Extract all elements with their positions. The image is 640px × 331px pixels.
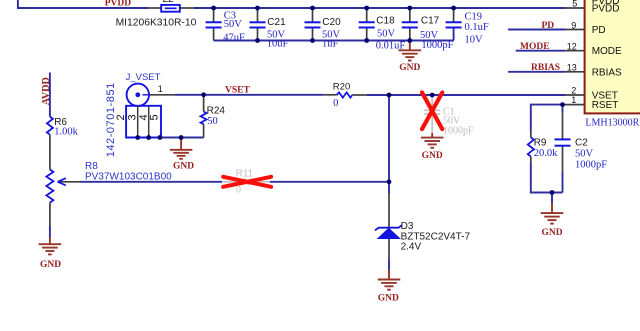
svg-text:MODE: MODE (592, 46, 622, 57)
svg-text:50V: 50V (575, 148, 594, 159)
svg-text:RBIAS: RBIAS (592, 67, 622, 78)
svg-text:C18: C18 (376, 16, 395, 27)
svg-text:RBIAS: RBIAS (531, 63, 560, 73)
svg-text:50: 50 (207, 116, 218, 127)
svg-text:2: 2 (571, 85, 576, 95)
svg-text:RSET: RSET (592, 100, 619, 111)
svg-text:5: 5 (148, 114, 160, 120)
svg-text:3: 3 (127, 114, 139, 120)
svg-text:MODE: MODE (520, 42, 550, 52)
svg-text:AVDD: AVDD (41, 77, 52, 105)
svg-text:50V: 50V (377, 28, 396, 39)
svg-text:1: 1 (571, 95, 576, 105)
svg-text:1000pF: 1000pF (443, 126, 474, 137)
svg-text:L2: L2 (163, 0, 175, 5)
svg-text:PVDD: PVDD (105, 0, 132, 9)
svg-text:C2: C2 (575, 137, 588, 148)
svg-text:GND: GND (173, 162, 194, 172)
svg-text:1uF: 1uF (322, 38, 339, 49)
svg-text:PV37W103C01B00: PV37W103C01B00 (85, 172, 172, 183)
svg-text:0: 0 (236, 185, 241, 196)
svg-text:GND: GND (40, 260, 61, 270)
svg-text:PVDD: PVDD (592, 4, 620, 15)
svg-text:R24: R24 (207, 105, 226, 116)
svg-text:R8: R8 (85, 161, 98, 172)
svg-text:R11: R11 (236, 168, 254, 179)
svg-text:MI1206K310R-10: MI1206K310R-10 (116, 17, 197, 28)
svg-text:50V: 50V (224, 19, 243, 30)
svg-text:1000pF: 1000pF (421, 40, 453, 51)
svg-text:10uF: 10uF (267, 38, 289, 49)
svg-text:C19: C19 (465, 12, 483, 23)
svg-text:C21: C21 (267, 17, 286, 28)
svg-text:10V: 10V (465, 34, 484, 45)
svg-text:2: 2 (115, 114, 127, 120)
svg-text:142-0701-851: 142-0701-851 (105, 82, 117, 157)
svg-text:2.4V: 2.4V (401, 241, 422, 252)
svg-text:D3: D3 (401, 221, 414, 232)
svg-text:1: 1 (158, 84, 163, 94)
svg-text:GND: GND (378, 293, 399, 303)
svg-text:0: 0 (333, 98, 338, 109)
svg-text:VSET: VSET (225, 86, 250, 96)
svg-text:R20: R20 (333, 82, 351, 93)
svg-text:GND: GND (399, 63, 420, 73)
svg-text:C20: C20 (322, 17, 341, 28)
svg-text:C17: C17 (421, 16, 440, 27)
svg-text:0.01uF: 0.01uF (376, 40, 406, 51)
svg-text:GND: GND (422, 151, 443, 161)
svg-text:1.00k: 1.00k (54, 126, 78, 137)
svg-text:J_VSET: J_VSET (126, 72, 161, 83)
svg-text:PD: PD (592, 25, 606, 36)
svg-text:47uF: 47uF (223, 32, 245, 43)
svg-text:5: 5 (572, 0, 577, 8)
svg-text:20.0k: 20.0k (534, 148, 558, 159)
svg-text:PD: PD (542, 21, 555, 31)
svg-text:1000pF: 1000pF (575, 160, 607, 171)
svg-text:LMH13000RNPBR: LMH13000RNPBR (585, 118, 640, 129)
svg-text:50V: 50V (420, 30, 439, 41)
svg-text:0.1uF: 0.1uF (465, 22, 489, 33)
svg-text:GND: GND (541, 228, 562, 238)
